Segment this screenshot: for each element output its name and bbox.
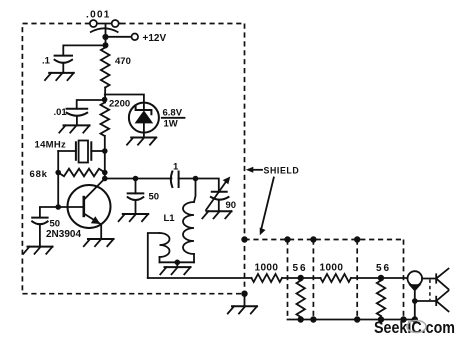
svg-text:1W: 1W — [164, 119, 178, 130]
node junction (470 / 2200 / zener / .01) — [102, 97, 108, 103]
output jack J1 — [408, 271, 423, 319]
capacitor C 50 (emitter-base side) — [32, 218, 47, 247]
capacitor C .01 — [67, 109, 88, 126]
SHIELD callout — [246, 165, 300, 235]
svg-text:SHIELD: SHIELD — [264, 165, 300, 175]
link winding (2-turn link on L1) — [148, 233, 170, 278]
ground (left 50 cap) — [23, 247, 52, 254]
ground (L1) — [160, 262, 190, 274]
resistor R 2200 — [101, 103, 110, 137]
wire to .1 cap — [63, 45, 105, 55]
resistor R 1000 (first) — [252, 274, 283, 282]
ground (variable cap) — [202, 211, 231, 218]
node junction 56 top (second) — [378, 275, 384, 281]
node junction base — [55, 204, 61, 210]
wire attenuator ground bus — [288, 319, 416, 321]
svg-text:L1: L1 — [164, 213, 176, 224]
wire to second shunt — [351, 277, 408, 279]
node junction 56 top (first) — [298, 275, 304, 281]
capacitor C 50 (collector bypass) — [128, 179, 144, 215]
shield box (main oscillator enclosure, dashed) — [22, 24, 244, 294]
node junction bus / divider — [310, 316, 316, 322]
wire to .01 cap — [77, 100, 105, 109]
node junction 56 bottom (first) — [298, 316, 304, 322]
node junction +12V — [102, 34, 108, 40]
node junction shield wall / attenuator top — [241, 236, 247, 242]
resistor R 470 — [101, 48, 110, 88]
node junction 68k right — [102, 170, 108, 176]
plug prong (return) — [436, 291, 448, 312]
wire node to variable cap — [196, 179, 219, 192]
attenuator box (dashed compartments) — [245, 240, 404, 320]
resistor R 1000 (second) — [321, 274, 352, 282]
label 6.8V / 1W — [162, 108, 185, 130]
node junction L1 tap — [193, 176, 199, 182]
wire to first shunt — [282, 277, 321, 279]
ground (for zener) — [127, 138, 156, 145]
node junction attenuator top dividers — [284, 236, 290, 242]
node junction crystal right — [102, 148, 108, 154]
wire 470 to node — [104, 88, 106, 103]
wire jack hot to plug — [422, 278, 436, 280]
svg-text:+12V: +12V — [143, 33, 167, 44]
svg-text:56: 56 — [376, 263, 391, 274]
node junction 50 cap tap — [133, 176, 139, 182]
svg-text:.001: .001 — [86, 10, 111, 21]
svg-text:90: 90 — [226, 200, 237, 211]
node junction collector — [102, 176, 108, 182]
node junction bus / divider — [354, 316, 360, 322]
plug prong (hot) — [436, 269, 448, 290]
svg-text:1000: 1000 — [320, 263, 344, 274]
ground (shield corner) — [228, 294, 257, 314]
wire L1 bottom bar — [160, 261, 195, 263]
node junction bus / right edge — [400, 316, 406, 322]
feedthrough capacitor C .001 on shield wall — [90, 20, 121, 32]
wire base to 50 cap — [40, 207, 58, 218]
node junction 56 bottom (second) — [378, 316, 384, 322]
svg-text:56: 56 — [293, 263, 308, 274]
+12V terminal — [132, 34, 139, 41]
wire link output to attenuator — [148, 277, 252, 279]
wire collector output line — [105, 178, 172, 180]
watermark — [374, 319, 455, 337]
dashed connector tie — [429, 280, 431, 301]
wire to zener — [105, 95, 144, 103]
node junction jack return — [412, 298, 418, 304]
resistor R 68k — [58, 169, 105, 177]
ground (for .1 cap) — [45, 73, 74, 80]
ground (right 50 cap) — [119, 214, 149, 221]
variable capacitor C 90 — [206, 177, 230, 212]
ground (for .01 cap) — [59, 125, 89, 132]
svg-text:68k: 68k — [30, 169, 48, 180]
svg-text:1000: 1000 — [255, 263, 279, 274]
svg-text:.01: .01 — [54, 107, 68, 118]
resistor R 56 (second shunt) — [377, 281, 385, 317]
svg-text:14MHz: 14MHz — [35, 140, 67, 151]
svg-text:.1: .1 — [42, 55, 51, 66]
transistor Q 2N3904 — [58, 179, 110, 240]
svg-text:50: 50 — [50, 219, 61, 230]
node junction shield ground corner — [241, 291, 247, 297]
wire jack return to plug — [415, 300, 436, 302]
node junction 68k left — [55, 170, 61, 176]
capacitor C 1 (series) — [171, 172, 196, 188]
wire 2200 to crystal node — [104, 136, 106, 179]
resistor R 56 (first shunt) — [297, 281, 305, 318]
ground (emitter) — [84, 239, 114, 246]
wire crystal left down to 68k — [57, 151, 59, 173]
svg-text:2N3904: 2N3904 — [46, 229, 81, 240]
wire to +12V terminal — [106, 36, 132, 38]
capacitor C .1 — [55, 56, 72, 73]
wire base branch down — [57, 173, 59, 208]
svg-text:SeekIC.com: SeekIC.com — [374, 319, 455, 337]
node junction to bypass cap — [103, 42, 109, 48]
zener diode D 6.8V 1W — [129, 103, 159, 138]
inductor L1 — [183, 179, 196, 263]
wire feedthrough down to +12V node — [105, 24, 107, 48]
node junction L1 ground — [175, 260, 181, 266]
svg-text:50: 50 — [149, 192, 160, 203]
svg-text:470: 470 — [115, 56, 131, 67]
node junction bus / connector return — [412, 316, 418, 322]
crystal Y 14MHz — [58, 141, 105, 163]
svg-text:2200: 2200 — [109, 99, 130, 110]
